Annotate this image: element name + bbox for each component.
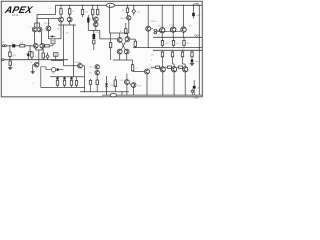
wire to bottom bus	[80, 77, 129, 95]
OUT bus upper	[153, 36, 202, 38]
transistor Q1	[34, 44, 39, 49]
resistor R9 top	[92, 5, 93, 6]
wire mirror tops	[35, 19, 40, 27]
resistor R19	[130, 39, 135, 41]
NPN output Q20	[160, 28, 165, 33]
svg-text:1k: 1k	[72, 11, 74, 13]
emitter wires to bus	[162, 32, 183, 37]
LTP tail wire	[36, 48, 42, 65]
wire box2 down	[51, 56, 64, 60]
resistor R1	[9, 52, 12, 57]
top rail left drop wire	[55, 5, 57, 14]
node dot	[9, 59, 10, 60]
PNP output Q24	[172, 67, 177, 72]
resistor R23	[127, 5, 128, 6]
PNP output Q25	[183, 67, 188, 72]
capacitor small C11	[51, 36, 53, 38]
svg-text:BD140: BD140	[149, 68, 156, 70]
border frame	[1, 1, 202, 97]
box label B2	[54, 53, 59, 57]
cross wires	[121, 41, 126, 50]
svg-text:2SC: 2SC	[138, 86, 142, 88]
resistor R4 below bus	[9, 60, 11, 61]
inductor L1	[52, 68, 56, 72]
wires Q10	[64, 62, 85, 77]
wires Q7 Q8	[55, 14, 76, 77]
emitter resistor Re1	[162, 37, 164, 40]
transistor Q9	[93, 17, 98, 22]
wire tail down	[33, 65, 35, 72]
wire x199	[198, 5, 200, 95]
NPN output Q22	[181, 27, 186, 32]
capacitor C12	[57, 69, 59, 71]
PNP emitter resistor Re5	[172, 50, 174, 52]
transistor Q7	[59, 17, 64, 22]
base resistor Rb5	[168, 66, 172, 68]
ground zobel	[190, 64, 194, 66]
transistor Q5	[46, 26, 51, 31]
collector wires up	[162, 5, 183, 27]
zobel resistor R22	[191, 50, 193, 52]
svg-text:BD139: BD139	[121, 18, 128, 20]
resistor R2	[20, 45, 25, 47]
PNP output Q23	[160, 67, 165, 72]
wire mid horizontal	[88, 31, 100, 35]
bias transistor Q16	[125, 80, 130, 85]
wire y18.6	[37, 18, 59, 20]
transistor Q26	[127, 16, 131, 20]
wire signal	[15, 45, 19, 47]
tail transistor Q6	[34, 62, 39, 67]
resistor R5b	[45, 45, 50, 47]
output cap C10	[193, 80, 195, 86]
transistor Q11	[95, 65, 99, 69]
capacitor C1	[12, 44, 15, 47]
base resistor Rb4	[156, 66, 160, 68]
resistor R3	[31, 52, 33, 57]
wires below drivers	[113, 54, 133, 60]
svg-text:T5: T5	[89, 20, 91, 22]
transistor Q28	[94, 22, 98, 26]
bottom -V rail	[102, 94, 202, 96]
svg-text:47k: 47k	[13, 55, 16, 57]
svg-text:100n: 100n	[196, 15, 200, 17]
resistor R12	[96, 75, 98, 80]
wire to LTP	[25, 45, 34, 47]
PNP emitter resistor Re4	[162, 50, 164, 52]
bias transistor Q17	[131, 83, 136, 88]
capacitor C5	[57, 76, 58, 77]
transistor Q27	[95, 70, 99, 74]
driver Q15	[124, 49, 129, 54]
pre-driver Q18	[145, 69, 150, 74]
capacitor C13	[191, 90, 193, 92]
zobel cap C9	[191, 59, 193, 62]
svg-text:0R5: 0R5	[165, 43, 168, 45]
diode D2	[106, 76, 108, 84]
capacitor C2	[27, 54, 29, 57]
driver Q13	[125, 37, 130, 42]
svg-text:T1: T1	[29, 26, 31, 28]
PNP emitter resistor Re6	[182, 50, 184, 52]
svg-text:0R5: 0R5	[161, 50, 164, 52]
transistor Q2	[40, 44, 45, 49]
bus lower-left	[50, 87, 84, 89]
emitter resistor Re3	[183, 37, 185, 40]
ground input	[8, 68, 12, 70]
transistor Q10	[78, 63, 83, 68]
resistor R15	[70, 81, 72, 86]
svg-text:1k: 1k	[55, 11, 57, 13]
capacitor C7	[71, 76, 72, 77]
capacitor C4 electrolytic	[93, 34, 96, 39]
svg-text:2SC: 2SC	[169, 25, 173, 27]
wire vertical node A	[36, 15, 38, 28]
svg-text:47u: 47u	[96, 32, 99, 34]
base bus wire	[157, 30, 181, 32]
input pads	[154, 29, 157, 34]
svg-text:1k: 1k	[151, 60, 153, 62]
svg-text:AX14: AX14	[196, 94, 200, 97]
wire node down	[28, 46, 32, 60]
svg-text:47k: 47k	[66, 33, 69, 35]
svg-text:2SC: 2SC	[158, 26, 162, 28]
svg-text:BC556: BC556	[44, 23, 51, 25]
driver Q12	[117, 38, 122, 43]
wire down to R1	[9, 46, 11, 52]
wire Q1 up	[34, 32, 36, 44]
resistor R10 top	[97, 5, 98, 6]
svg-text:100n: 100n	[195, 61, 199, 63]
wires bias	[127, 74, 134, 95]
wire feedback horizontal	[37, 14, 56, 16]
current mirror Q3	[32, 27, 37, 32]
resistor R17	[125, 23, 127, 29]
transistor Q8	[67, 17, 72, 22]
node dot	[9, 45, 10, 46]
svg-text:0R5: 0R5	[171, 50, 174, 52]
resistor R11	[93, 40, 95, 44]
input ground bus	[4, 59, 68, 61]
diode D3 diamond	[132, 5, 136, 15]
svg-text:10k: 10k	[57, 29, 60, 31]
APEX logo	[3, 5, 34, 16]
wire Q5 bottom	[48, 31, 51, 39]
resistor R5	[42, 49, 44, 54]
current mirror Q4	[37, 27, 42, 32]
collector wires down	[163, 72, 185, 95]
wire Q26 down	[128, 20, 130, 33]
resistor R7 top	[69, 5, 70, 6]
top +V rail	[56, 4, 203, 6]
feedback loop wire	[41, 67, 64, 88]
NPN output Q21	[171, 27, 176, 32]
capacitor C3	[87, 18, 89, 23]
resistor R14	[63, 81, 65, 86]
fuse F2 on bottom rail	[110, 93, 116, 96]
wire Q2 up	[41, 32, 43, 44]
svg-text:1k: 1k	[122, 10, 124, 12]
wire R1 to bus	[9, 57, 11, 60]
OUT bus mid	[133, 47, 202, 49]
emitter resistor Re2	[173, 37, 175, 40]
wire right column	[100, 31, 118, 39]
svg-text:BC546: BC546	[75, 62, 82, 64]
svg-text:1u: 1u	[12, 42, 14, 44]
svg-text:10k: 10k	[52, 73, 55, 75]
svg-text:0R5: 0R5	[181, 50, 184, 52]
input jack J1	[2, 45, 12, 47]
resistor R24	[90, 79, 92, 81]
resistor R16	[76, 77, 78, 81]
svg-text:1n: 1n	[25, 53, 27, 55]
base resistor Rb6	[179, 66, 183, 68]
capacitor C6	[64, 76, 65, 77]
ground tail	[31, 72, 35, 74]
node dot	[30, 45, 31, 46]
pre-driver Q19	[146, 26, 151, 31]
resistor R21	[132, 60, 134, 65]
input return terminal	[2, 59, 4, 61]
decoupling cap C8	[193, 5, 194, 6]
resistor R13	[56, 81, 58, 86]
svg-text:0R5: 0R5	[176, 43, 179, 45]
svg-text:0R5: 0R5	[187, 43, 190, 45]
wire Q18 down	[146, 74, 148, 95]
wire Q19	[148, 5, 149, 6]
wire Q5 top	[47, 19, 49, 26]
resistor R20	[114, 76, 116, 80]
svg-text:BD139: BD139	[151, 21, 158, 23]
resistor R6 top	[60, 5, 61, 6]
driver Q14	[117, 49, 122, 54]
wire y33	[110, 33, 130, 38]
svg-text:APEX: APEX	[3, 5, 34, 16]
lower-left component bank wire	[50, 76, 84, 78]
svg-text:2SC: 2SC	[189, 26, 193, 28]
svg-text:AX 14: AX 14	[12, 14, 19, 17]
resistor R18	[110, 33, 112, 43]
svg-text:1k: 1k	[135, 68, 137, 70]
fuse wire vertical x109.5	[109, 5, 110, 6]
fuse F1 on top rail	[106, 3, 115, 7]
OUT bus lower	[153, 49, 202, 51]
resistor R8 top	[82, 5, 83, 6]
diode D1 diamond	[46, 53, 49, 60]
box label B1	[51, 39, 55, 44]
